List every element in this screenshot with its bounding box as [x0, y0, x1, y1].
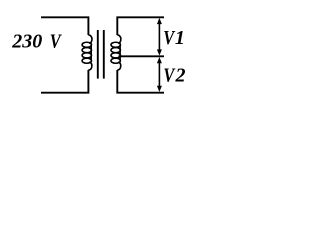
- svg-text:230: 230: [11, 31, 42, 53]
- svg-text:V: V: [163, 64, 176, 86]
- voltage arrow V1: [157, 18, 162, 56]
- source label 230 V: [11, 30, 62, 52]
- voltage arrow V2: [157, 57, 162, 92]
- label V1: [163, 26, 185, 48]
- wire bottom left: [41, 70, 88, 93]
- svg-text:2: 2: [175, 65, 186, 87]
- transformer T1 primary winding: [82, 35, 92, 70]
- svg-text:1: 1: [175, 27, 185, 49]
- wire center tap: [119, 55, 165, 57]
- svg-text:V: V: [50, 30, 63, 52]
- label V2: [163, 64, 185, 86]
- wire top left: [41, 17, 88, 35]
- wire top right: [117, 17, 164, 35]
- transformer core: [98, 30, 104, 79]
- transformer T1 secondary winding: [111, 35, 121, 70]
- wire bottom right: [117, 70, 164, 93]
